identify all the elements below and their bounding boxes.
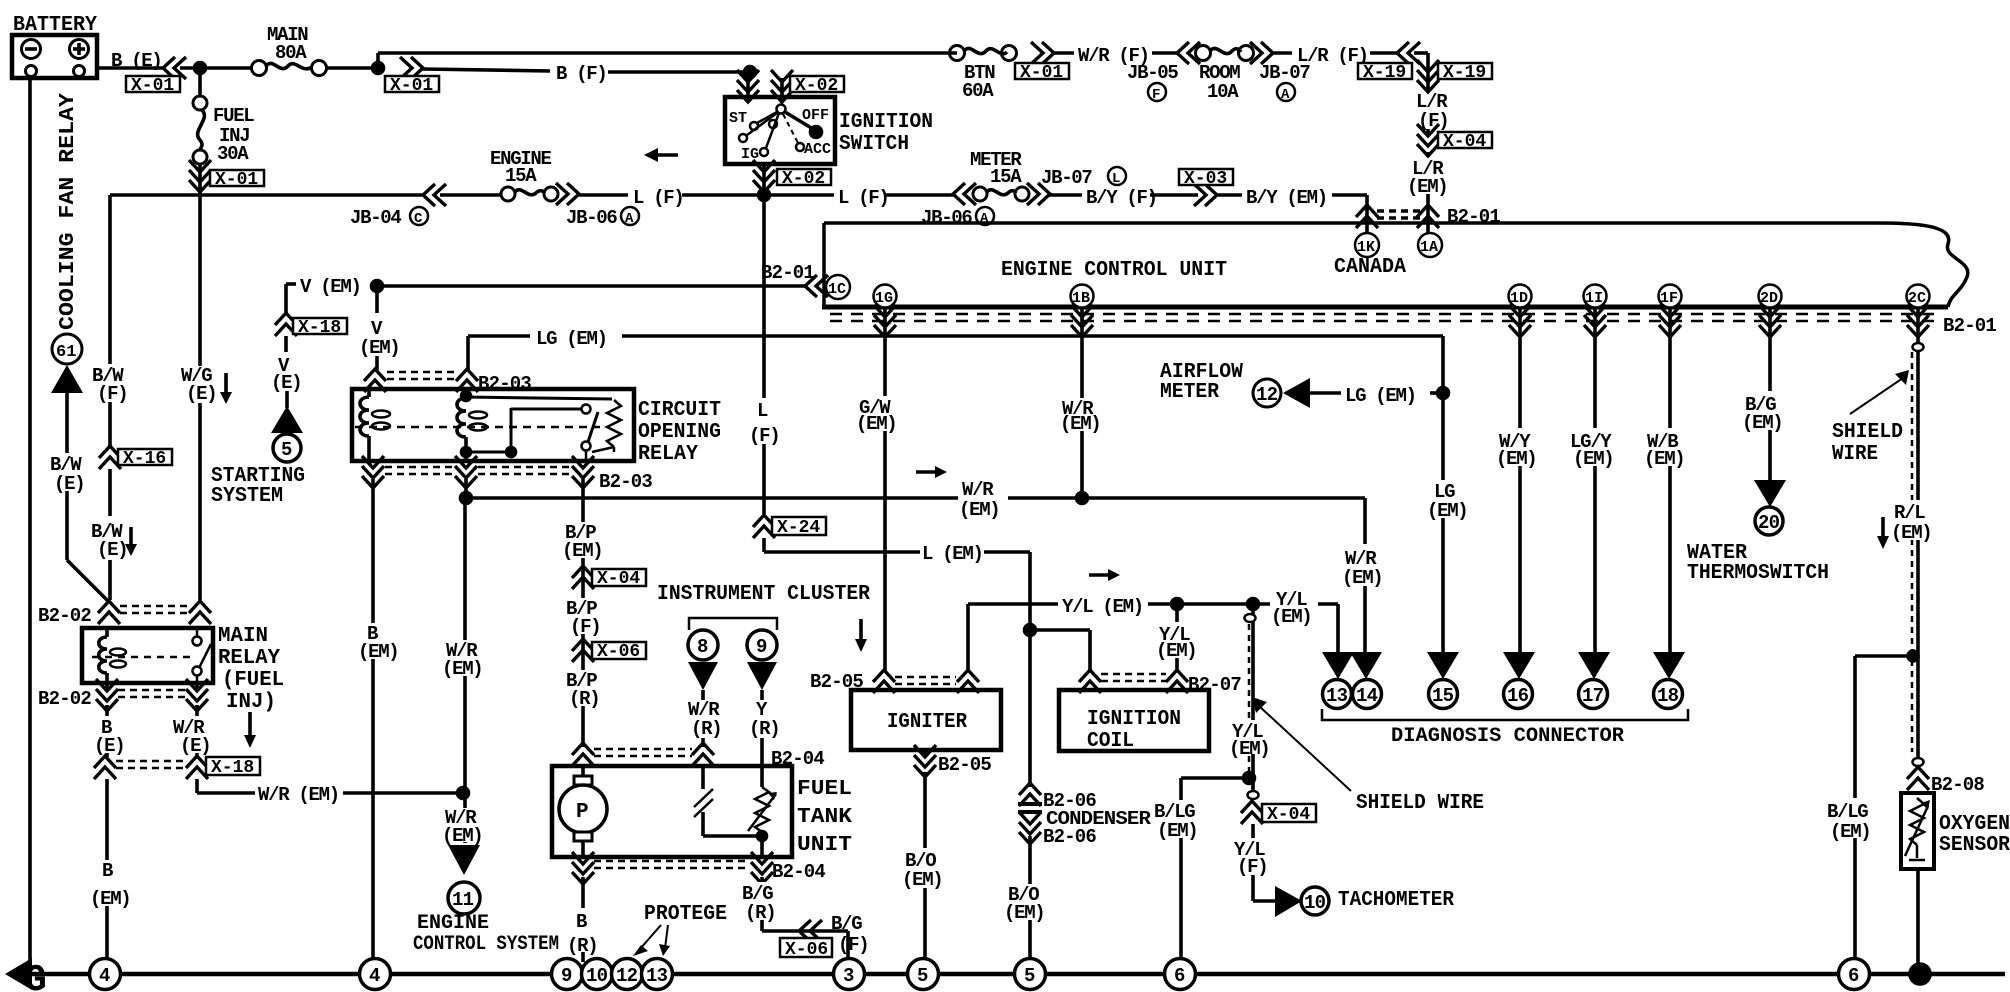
svg-text:18: 18 [1657, 685, 1679, 707]
svg-text:IGNITER: IGNITER [887, 711, 967, 734]
svg-text:(F): (F) [1237, 856, 1267, 878]
svg-text:X-04: X-04 [597, 569, 640, 589]
svg-text:L: L [1112, 171, 1120, 187]
svg-text:X-01: X-01 [215, 170, 258, 190]
svg-text:CIRCUIT: CIRCUIT [638, 399, 721, 422]
svg-text:FUEL: FUEL [797, 778, 852, 801]
svg-text:61: 61 [56, 343, 76, 362]
svg-text:X-16: X-16 [123, 449, 166, 469]
svg-text:(R): (R) [749, 718, 779, 740]
svg-text:FUEL: FUEL [213, 105, 254, 127]
svg-text:(E): (E) [180, 735, 210, 757]
svg-text:(EM): (EM) [1271, 606, 1311, 628]
svg-text:IG: IG [741, 146, 759, 163]
svg-text:X-19: X-19 [1443, 63, 1486, 83]
svg-text:1I: 1I [1585, 290, 1603, 307]
svg-text:4: 4 [369, 965, 380, 987]
svg-text:SENSOR: SENSOR [1939, 834, 2010, 857]
svg-text:B2-04: B2-04 [772, 861, 825, 883]
svg-text:MAIN: MAIN [218, 625, 268, 648]
svg-text:X-03: X-03 [1184, 169, 1227, 189]
svg-text:1D: 1D [1510, 290, 1528, 307]
svg-text:16: 16 [1507, 685, 1529, 707]
svg-text:(EM): (EM) [1496, 448, 1536, 470]
svg-text:P: P [576, 801, 589, 824]
svg-text:10: 10 [586, 965, 608, 987]
svg-text:(F): (F) [749, 425, 779, 447]
svg-text:15A: 15A [990, 166, 1022, 188]
svg-text:G: G [24, 959, 47, 992]
svg-text:17: 17 [1582, 685, 1604, 707]
svg-text:12: 12 [1256, 384, 1278, 406]
svg-text:METER: METER [1160, 381, 1219, 404]
svg-text:6: 6 [1174, 965, 1185, 987]
svg-text:60A: 60A [962, 80, 994, 102]
svg-text:PROTEGE: PROTEGE [644, 903, 727, 926]
svg-text:X-04: X-04 [1267, 805, 1310, 825]
svg-text:11: 11 [452, 889, 474, 911]
svg-text:L: L [757, 400, 768, 422]
svg-text:L (EM): L (EM) [922, 543, 983, 565]
svg-text:CANADA: CANADA [1334, 256, 1406, 279]
svg-text:(EM): (EM) [1342, 567, 1382, 589]
svg-text:80A: 80A [275, 42, 307, 64]
svg-text:TACHOMETER: TACHOMETER [1338, 889, 1454, 912]
svg-text:20: 20 [1758, 512, 1780, 534]
svg-text:(EM): (EM) [358, 641, 398, 663]
svg-text:SHIELD WIRE: SHIELD WIRE [1356, 792, 1484, 815]
svg-text:(R): (R) [567, 935, 597, 957]
svg-text:SHIELD: SHIELD [1832, 421, 1903, 444]
svg-text:B2-01: B2-01 [761, 262, 814, 284]
svg-text:(EM): (EM) [442, 825, 482, 847]
svg-text:B2-03: B2-03 [478, 373, 531, 395]
svg-text:(EM): (EM) [359, 337, 399, 359]
svg-text:(EM): (EM) [90, 888, 130, 910]
svg-text:(EM): (EM) [1157, 820, 1197, 842]
svg-text:1A: 1A [1420, 239, 1438, 256]
svg-text:B/Y (F): B/Y (F) [1086, 187, 1157, 209]
svg-text:JB-06: JB-06 [566, 207, 617, 229]
svg-text:B2-06: B2-06 [1043, 826, 1096, 848]
svg-text:TANK: TANK [797, 806, 852, 829]
svg-text:(E): (E) [94, 735, 124, 757]
svg-text:B2-08: B2-08 [1931, 774, 1984, 796]
svg-text:OPENING: OPENING [638, 421, 721, 444]
svg-text:ACC: ACC [804, 141, 831, 158]
svg-text:COIL: COIL [1087, 730, 1134, 753]
svg-text:(R): (R) [691, 718, 721, 740]
svg-text:ENGINE: ENGINE [417, 912, 489, 935]
svg-text:30A: 30A [217, 143, 249, 165]
svg-text:B/LG: B/LG [1827, 801, 1868, 823]
svg-text:(EM): (EM) [1004, 902, 1044, 924]
svg-text:X-02: X-02 [782, 169, 825, 189]
svg-text:COOLING FAN RELAY: COOLING FAN RELAY [57, 93, 80, 330]
svg-text:8: 8 [697, 636, 708, 658]
svg-text:OXYGEN: OXYGEN [1939, 813, 2010, 836]
svg-text:JB-05: JB-05 [1127, 62, 1178, 84]
svg-text:X-01: X-01 [390, 76, 433, 96]
svg-text:(E): (E) [186, 383, 216, 405]
svg-text:(EM): (EM) [856, 413, 896, 435]
svg-text:1B: 1B [1072, 290, 1090, 307]
svg-text:L (F): L (F) [633, 187, 684, 209]
svg-text:DIAGNOSIS CONNECTOR: DIAGNOSIS CONNECTOR [1391, 725, 1624, 748]
svg-text:5: 5 [917, 965, 928, 987]
svg-text:(R): (R) [569, 688, 599, 710]
svg-text:10A: 10A [1207, 81, 1239, 103]
svg-text:13: 13 [646, 965, 668, 987]
svg-text:(EM): (EM) [959, 499, 999, 521]
svg-text:X-01: X-01 [131, 76, 174, 96]
svg-text:F: F [1152, 87, 1160, 103]
svg-text:LG (EM): LG (EM) [1345, 385, 1416, 407]
svg-text:INSTRUMENT CLUSTER: INSTRUMENT CLUSTER [657, 583, 870, 606]
svg-text:THERMOSWITCH: THERMOSWITCH [1687, 562, 1829, 585]
svg-text:1G: 1G [875, 290, 893, 307]
svg-text:(F): (F) [570, 616, 600, 638]
svg-text:12: 12 [616, 965, 638, 987]
svg-text:X-01: X-01 [1020, 63, 1063, 83]
svg-text:CONTROL SYSTEM: CONTROL SYSTEM [413, 933, 559, 956]
svg-text:5: 5 [281, 439, 292, 461]
svg-text:UNIT: UNIT [797, 834, 852, 857]
svg-text:INJ): INJ) [226, 691, 276, 714]
svg-text:9: 9 [561, 965, 572, 987]
svg-text:2D: 2D [1760, 290, 1778, 307]
svg-text:LG (EM): LG (EM) [536, 328, 607, 350]
svg-text:X-18: X-18 [298, 318, 341, 338]
svg-text:5: 5 [1024, 965, 1035, 987]
svg-text:SYSTEM: SYSTEM [211, 485, 283, 508]
svg-text:(FUEL: (FUEL [222, 669, 284, 692]
svg-text:B2-02: B2-02 [38, 605, 91, 627]
svg-text:(E): (E) [97, 539, 127, 561]
svg-text:(EM): (EM) [1644, 448, 1684, 470]
svg-text:ENGINE CONTROL UNIT: ENGINE CONTROL UNIT [1001, 259, 1227, 282]
svg-text:1K: 1K [1357, 239, 1375, 256]
svg-text:OFF: OFF [802, 107, 829, 124]
svg-text:(F): (F) [838, 934, 868, 956]
svg-text:X-06: X-06 [785, 940, 828, 960]
svg-text:B/Y (EM): B/Y (EM) [1246, 187, 1327, 209]
svg-text:B2-05: B2-05 [938, 754, 991, 776]
svg-text:X-06: X-06 [597, 642, 640, 662]
svg-text:W/R: W/R [962, 479, 994, 501]
svg-text:B2-02: B2-02 [38, 688, 91, 710]
svg-text:(EM): (EM) [562, 540, 602, 562]
svg-text:(EM): (EM) [1742, 412, 1782, 434]
svg-text:B: B [576, 911, 587, 933]
svg-text:10: 10 [1304, 892, 1326, 914]
svg-text:B2-01: B2-01 [1943, 315, 1996, 337]
svg-text:1F: 1F [1660, 290, 1678, 307]
svg-text:1C: 1C [828, 281, 846, 298]
svg-text:(EM): (EM) [1830, 821, 1870, 843]
svg-text:(EM): (EM) [902, 869, 942, 891]
svg-text:(EM): (EM) [442, 658, 482, 680]
svg-text:X-04: X-04 [1443, 132, 1486, 152]
svg-text:W/R (EM): W/R (EM) [258, 784, 339, 806]
svg-text:(R): (R) [745, 902, 775, 924]
svg-text:RELAY: RELAY [218, 647, 280, 670]
svg-text:3: 3 [843, 965, 854, 987]
svg-text:(EM): (EM) [1229, 738, 1269, 760]
svg-text:L (F): L (F) [838, 187, 889, 209]
svg-text:(EM): (EM) [1427, 500, 1467, 522]
svg-text:V (EM): V (EM) [300, 276, 361, 298]
svg-text:JB-07: JB-07 [1041, 167, 1092, 189]
svg-text:X-24: X-24 [777, 518, 820, 538]
svg-text:4: 4 [99, 965, 110, 987]
svg-text:15: 15 [1432, 685, 1454, 707]
svg-text:IGNITION: IGNITION [1087, 708, 1181, 731]
svg-text:R/L: R/L [1894, 502, 1925, 524]
svg-text:13: 13 [1326, 685, 1348, 707]
svg-text:IGNITION: IGNITION [839, 111, 933, 134]
svg-text:(EM): (EM) [1891, 522, 1931, 544]
svg-text:2C: 2C [1908, 290, 1926, 307]
svg-text:X-18: X-18 [211, 758, 254, 778]
svg-text:JB-07: JB-07 [1259, 62, 1310, 84]
svg-text:(F): (F) [97, 383, 127, 405]
svg-text:6: 6 [1848, 965, 1859, 987]
svg-text:B: B [102, 860, 113, 882]
svg-text:A: A [625, 211, 634, 227]
svg-text:JB-06: JB-06 [921, 207, 972, 229]
svg-text:9: 9 [756, 636, 767, 658]
svg-text:SWITCH: SWITCH [839, 133, 909, 156]
svg-text:Y/L (EM): Y/L (EM) [1062, 596, 1143, 618]
svg-text:15A: 15A [505, 165, 537, 187]
svg-text:B2-03: B2-03 [599, 471, 652, 493]
svg-text:JB-04: JB-04 [350, 207, 401, 229]
svg-text:B2-07: B2-07 [1188, 674, 1241, 696]
svg-text:X-02: X-02 [795, 76, 838, 96]
svg-text:14: 14 [1356, 685, 1378, 707]
svg-text:A: A [1281, 87, 1290, 103]
svg-text:RELAY: RELAY [638, 443, 698, 466]
svg-text:ST: ST [729, 110, 747, 127]
svg-text:WIRE: WIRE [1832, 443, 1878, 466]
svg-text:X-19: X-19 [1363, 63, 1406, 83]
svg-text:C: C [414, 211, 423, 227]
svg-text:B (F): B (F) [556, 63, 607, 85]
svg-text:(E): (E) [54, 473, 84, 495]
svg-text:(E): (E) [271, 372, 301, 394]
